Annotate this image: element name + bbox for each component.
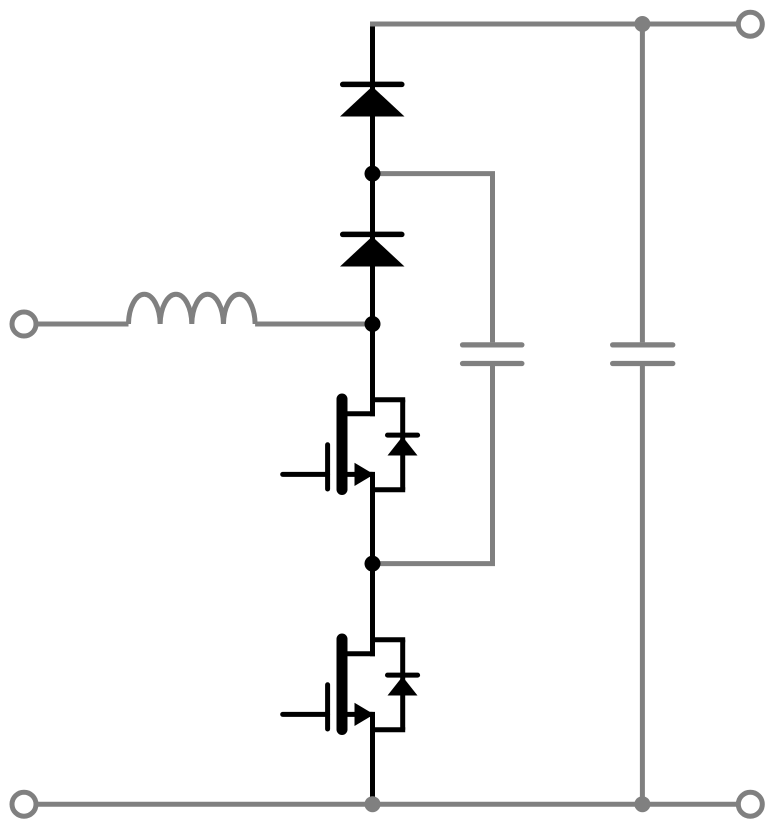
terminal: input - (bottom left) — [12, 792, 36, 816]
junction: bottom rail / C2 — [634, 796, 650, 812]
junction: bottom rail / main — [365, 796, 381, 812]
wire: C2 branch lower — [640, 366, 645, 804]
wire: main vertical middle segment (Q1 source to Q2 drain) — [370, 472, 375, 656]
wire: top rail — [370, 22, 738, 27]
wire: main vertical lower segment (Q2 source to bottom rail) — [370, 712, 375, 804]
wire: C1 bottom link (C1 to node B) — [373, 366, 493, 564]
capacitor C1 — [463, 345, 522, 364]
node B (Q1-Q2 junction) — [365, 556, 381, 572]
junction: top rail / C2 — [634, 16, 650, 32]
wire: main vertical upper segment (top rail to Q1 drain) — [370, 24, 375, 416]
node A (D1-D2 junction) — [365, 166, 381, 182]
wire: input lead — [36, 322, 129, 327]
inductor L1 — [129, 294, 256, 324]
terminal: output - (bottom right) — [738, 792, 762, 816]
transistor Q1 (N-MOSFET with body diode) — [283, 399, 418, 490]
diode D1 — [340, 84, 405, 116]
wire: C1 top link (node A to C1) — [373, 174, 493, 343]
wire: bottom rail — [24, 802, 750, 807]
wire: C2 branch upper — [640, 24, 645, 342]
node L (inductor switch node) — [365, 316, 381, 332]
terminal: output + (top right) — [738, 12, 762, 36]
wire: inductor to switch node — [255, 322, 368, 327]
capacitor C2 — [613, 345, 673, 364]
diode D2 — [340, 234, 405, 266]
terminal: input + (left) — [12, 312, 36, 336]
transistor Q2 (N-MOSFET with body diode) — [283, 639, 418, 730]
